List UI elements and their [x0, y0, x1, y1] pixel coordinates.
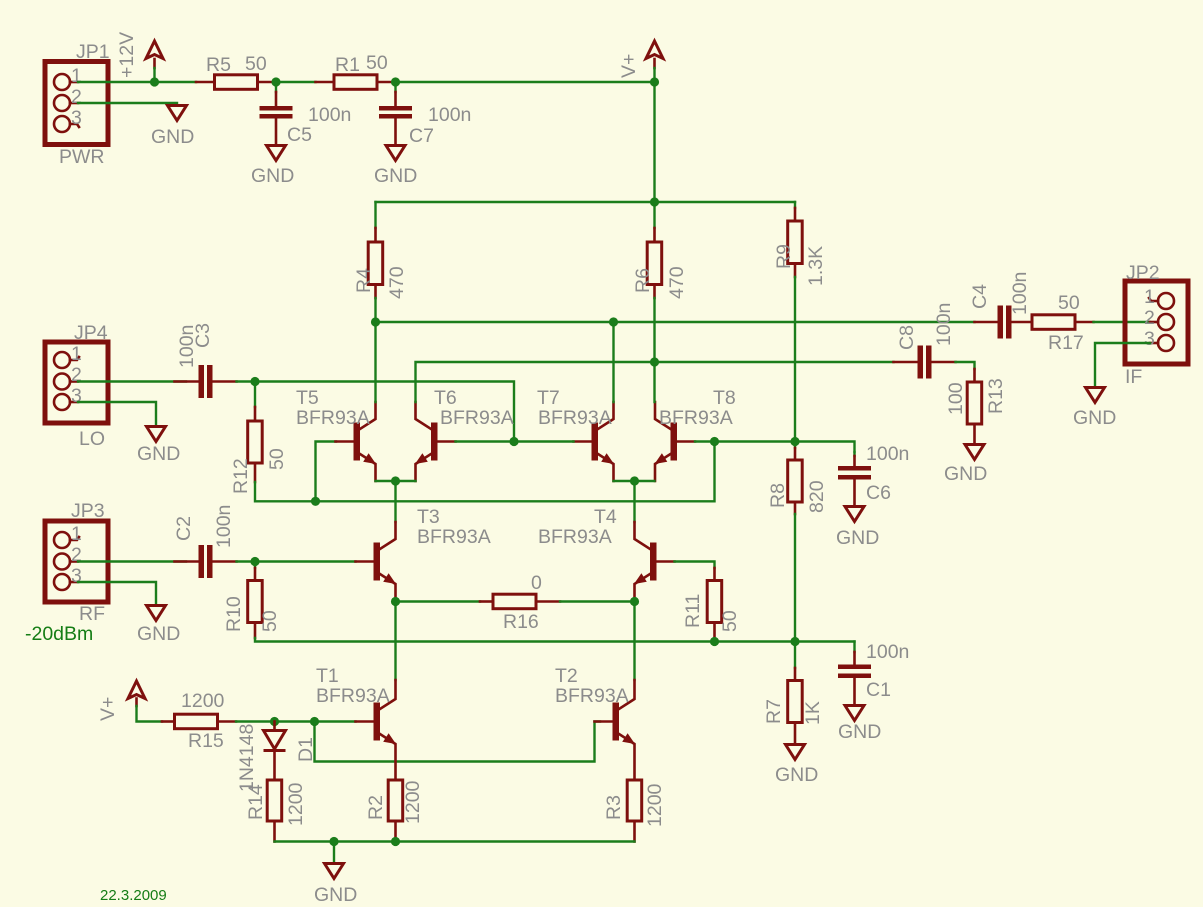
svg-text:3: 3: [1144, 328, 1155, 350]
ground GND (R13): [944, 445, 987, 486]
svg-text:D1: D1: [295, 737, 317, 762]
wire T8 base to bias node: [695, 442, 855, 453]
svg-text:GND: GND: [251, 165, 294, 187]
svg-text:GND: GND: [1073, 407, 1116, 429]
svg-text:GND: GND: [314, 884, 357, 906]
junction R9/R8 bias node: [790, 437, 799, 446]
wire R17 to JP2 pin2: [1094, 321, 1151, 323]
svg-text:820: 820: [806, 480, 828, 513]
svg-text:1: 1: [1144, 286, 1155, 308]
svg-text:R17: R17: [1048, 332, 1084, 354]
resistor R10 50: [223, 568, 281, 638]
JP4 pin 1: [54, 343, 82, 368]
svg-text:C1: C1: [866, 679, 891, 701]
capacitor C6 100n: [838, 443, 909, 505]
svg-text:1: 1: [71, 523, 82, 545]
svg-text:C6: C6: [866, 482, 891, 504]
svg-text:C4: C4: [969, 284, 991, 309]
diode D1 1N4148: [236, 722, 317, 793]
ground GND (C1): [838, 706, 881, 744]
wire JP1 pin2 to GND: [78, 102, 177, 104]
svg-text:50: 50: [259, 610, 281, 632]
svg-text:100n: 100n: [308, 104, 351, 126]
junction R11 bottom on tail rail: [710, 637, 719, 646]
svg-text:R7: R7: [763, 699, 785, 724]
svg-text:R4: R4: [353, 268, 375, 293]
supply V+ symbol (left): [146, 41, 163, 68]
ground GND (bottom): [314, 864, 357, 907]
wire T5 collector riser: [374, 322, 376, 402]
svg-text:100n: 100n: [866, 641, 909, 663]
svg-text:+12V: +12V: [116, 32, 138, 78]
svg-text:3: 3: [71, 385, 82, 407]
svg-text:T8: T8: [713, 387, 736, 409]
capacitor C1 100n: [838, 641, 909, 704]
wire GND stub: [333, 842, 335, 863]
resistor R3 1200: [603, 780, 666, 842]
ground GND (JP3): [137, 606, 180, 646]
wire V+ horizontal rail y202: [376, 201, 796, 203]
svg-text:R14: R14: [245, 784, 267, 820]
ground GND (JP2): [1073, 388, 1116, 430]
svg-text:LO: LO: [79, 428, 105, 450]
svg-text:T3: T3: [417, 506, 440, 528]
junction R5/C5: [271, 77, 280, 86]
svg-text:R2: R2: [365, 795, 387, 820]
svg-text:BFR93A: BFR93A: [417, 526, 491, 548]
supply V+ symbol (top middle): [618, 41, 663, 78]
ground GND (C6): [836, 507, 879, 550]
resistor R16 0: [480, 572, 560, 633]
wire R10 top drop: [254, 562, 256, 569]
svg-text:T5: T5: [296, 387, 319, 409]
JP2 pin 2: [1144, 307, 1174, 330]
junction R1/C7: [391, 77, 400, 86]
svg-text:50: 50: [245, 53, 267, 75]
svg-text:JP3: JP3: [71, 500, 105, 522]
capacitor C3 100n: [175, 323, 237, 398]
junction V+ node: [650, 77, 659, 86]
JP3 pin 1: [54, 523, 82, 548]
svg-text:R15: R15: [188, 730, 224, 752]
svg-text:GND: GND: [944, 463, 987, 485]
transistor T2 BFR93A: [595, 680, 636, 780]
junction +12V node: [150, 77, 159, 86]
ground GND (JP4): [137, 427, 180, 466]
svg-text:BFR93A: BFR93A: [296, 407, 370, 429]
JP4 pin 3: [54, 385, 82, 410]
junction D1 anode: [270, 717, 279, 726]
svg-text:0: 0: [531, 572, 542, 594]
JP1 pin 2: [54, 86, 82, 111]
svg-text:2: 2: [71, 86, 82, 108]
svg-text:R10: R10: [223, 596, 245, 632]
svg-text:470: 470: [386, 266, 408, 299]
wire C2 to RF node: [237, 560, 256, 562]
JP4 pin 2: [54, 364, 82, 390]
wire T6 base to T7 base: [456, 440, 574, 442]
svg-text:BFR93A: BFR93A: [316, 685, 390, 707]
wire RF node to T3 base: [255, 560, 356, 562]
svg-text:T2: T2: [555, 665, 578, 687]
resistor R5 50: [196, 53, 276, 89]
junction R8 tail on rail y641: [790, 637, 799, 646]
wire T6 collector riser and output rail B y362: [416, 362, 894, 402]
junction R2 bottom: [391, 837, 400, 846]
resistor R14 1200: [245, 780, 307, 842]
transistor T3 BFR93A: [356, 522, 397, 602]
transistor T1 BFR93A: [356, 680, 397, 780]
connector JP4: [45, 322, 108, 450]
wire R15 to T1 base: [236, 720, 356, 722]
wire R4 bottom: [374, 298, 376, 322]
svg-text:R12: R12: [230, 458, 252, 494]
junction LO node: [250, 377, 259, 386]
wire JP1 pin1 to +12V node: [78, 81, 196, 83]
transistor T6 BFR93A: [415, 402, 456, 481]
transistor T5 BFR93A: [336, 402, 377, 481]
junction T5 base tap: [311, 497, 320, 506]
wire JP3 pin2 to C2: [78, 560, 186, 562]
JP3 pin 3: [54, 565, 82, 590]
capacitor C4 100n: [969, 272, 1032, 339]
capacitor C7 100n: [379, 82, 471, 147]
JP1 pin 3: [54, 107, 82, 132]
svg-text:R9: R9: [773, 244, 795, 269]
JP2 pin 1: [1144, 286, 1174, 309]
svg-text:BFR93A: BFR93A: [659, 407, 733, 429]
wire R4 top drop: [374, 202, 376, 228]
svg-text:1: 1: [71, 65, 82, 87]
resistor R1 50: [316, 52, 396, 89]
resistor R17 50: [1032, 292, 1094, 354]
wire JP3 pin3 to GND: [78, 582, 156, 604]
svg-text:100n: 100n: [933, 303, 955, 346]
svg-text:T7: T7: [537, 387, 560, 409]
ground GND (JP1): [151, 106, 194, 149]
resistor R7 1K: [763, 642, 824, 744]
svg-text:IF: IF: [1125, 366, 1142, 388]
junction T5/T6 emitters: [391, 476, 400, 485]
resistor R8 820: [767, 442, 828, 515]
svg-text:RF: RF: [79, 603, 105, 625]
JP3 pin 2: [54, 544, 82, 570]
svg-text:50: 50: [266, 448, 288, 470]
JP2 pin 3: [1144, 328, 1174, 351]
junction R6/T8 collector: [650, 357, 659, 366]
wire C8 to R13 corner: [956, 362, 975, 369]
junction GND stub: [329, 837, 338, 846]
wire C1 drop from rail: [853, 642, 855, 653]
svg-text:GND: GND: [775, 764, 818, 786]
svg-text:R3: R3: [603, 795, 625, 820]
wire R16 left: [396, 600, 481, 602]
wire R6 top drop: [653, 202, 655, 228]
svg-text:T1: T1: [316, 665, 339, 687]
svg-text:T4: T4: [594, 506, 617, 528]
svg-text:V+: V+: [618, 54, 640, 78]
wire R9 bottom to LO bias node: [794, 277, 796, 442]
connector JP1: [45, 41, 110, 168]
svg-text:GND: GND: [137, 623, 180, 645]
wire emitters down to T3 collector: [394, 481, 396, 522]
resistor R4 470: [353, 228, 408, 299]
wire T2 base detour: [315, 722, 601, 762]
resistor R13 100: [945, 369, 1007, 443]
svg-text:GND: GND: [838, 721, 881, 743]
connector JP2: [1125, 262, 1188, 388]
ground GND (C7): [374, 146, 417, 188]
transistor T7 BFR93A: [574, 402, 615, 481]
resistor R2 1200: [365, 780, 424, 842]
wire T7 collector riser: [612, 322, 614, 402]
svg-text:JP2: JP2: [1126, 262, 1160, 284]
junction T4 emitter / R16 right: [630, 597, 639, 606]
wire V+ stem: [153, 68, 155, 82]
supply V+ symbol (bottom): [97, 681, 145, 721]
ground GND (C5): [251, 146, 294, 188]
wire T8 collector riser: [653, 362, 655, 402]
wire C3 to LO node: [237, 380, 256, 382]
wire T4 base to R11: [675, 562, 715, 569]
wire JP4 pin2 to C3: [78, 380, 186, 382]
wire R12 top drop: [254, 382, 256, 408]
junction T3 emitter / R16 left: [391, 597, 400, 606]
wire R5 to R1: [276, 81, 316, 83]
JP1 pin 1: [54, 65, 82, 90]
svg-text:V+: V+: [97, 697, 119, 721]
junction T8 base/R12 rail riser: [710, 437, 719, 446]
svg-text:50: 50: [719, 610, 741, 632]
svg-text:C2: C2: [173, 516, 195, 541]
wire V+ stem to rail: [653, 68, 655, 82]
svg-text:100n: 100n: [866, 443, 909, 465]
svg-text:GND: GND: [137, 443, 180, 465]
wire T4 emitter down to T2 collector: [633, 602, 635, 681]
svg-text:-20dBm: -20dBm: [25, 623, 93, 645]
wire T5/T6 emitter tie: [376, 480, 416, 482]
transistor T4 BFR93A: [634, 522, 675, 602]
svg-text:GND: GND: [836, 527, 879, 549]
wire LO rail to crossover corner: [255, 382, 514, 442]
svg-text:R11: R11: [682, 594, 704, 628]
svg-text:1.3K: 1.3K: [805, 246, 827, 286]
svg-text:R13: R13: [985, 378, 1007, 414]
junction V+ distribution: [650, 197, 659, 206]
junction T2 base tap: [310, 717, 319, 726]
wire R16 right: [560, 600, 635, 602]
svg-text:R8: R8: [767, 483, 789, 508]
svg-text:22.3.2009: 22.3.2009: [100, 887, 167, 904]
svg-text:1200: 1200: [285, 782, 307, 826]
junction T7 collector tap: [609, 317, 618, 326]
svg-text:1200: 1200: [181, 690, 225, 712]
wire R8 bottom to tail node: [794, 514, 796, 642]
svg-text:50: 50: [366, 52, 388, 74]
svg-text:R5: R5: [206, 54, 231, 76]
svg-text:100n: 100n: [428, 104, 471, 126]
junction T7/T8 emitters: [630, 476, 639, 485]
resistor R15 1200: [162, 690, 236, 752]
wire R9 top drop: [794, 202, 796, 208]
junction RF node: [250, 557, 259, 566]
junction T6/T7 base node: [509, 437, 518, 446]
svg-text:C5: C5: [287, 124, 312, 146]
capacitor C5 100n: [260, 82, 352, 146]
capacitor C2 100n: [173, 505, 237, 578]
junction R4/T5 collector: [371, 317, 380, 326]
transistor T8 BFR93A: [655, 402, 696, 481]
svg-text:BFR93A: BFR93A: [538, 526, 612, 548]
svg-text:2: 2: [1144, 307, 1155, 329]
svg-text:PWR: PWR: [59, 146, 105, 168]
svg-text:50: 50: [1058, 292, 1080, 314]
svg-text:100: 100: [945, 382, 967, 415]
svg-text:100n: 100n: [1009, 272, 1031, 315]
wire T3 emitter down to T1 collector: [394, 602, 396, 681]
capacitor C8 100n: [894, 303, 956, 379]
svg-text:R6: R6: [632, 268, 654, 293]
svg-text:BFR93A: BFR93A: [440, 407, 514, 429]
svg-text:1200: 1200: [644, 783, 666, 827]
wire output rail A y322: [376, 321, 975, 323]
svg-text:3: 3: [71, 565, 82, 587]
svg-text:GND: GND: [151, 126, 194, 148]
svg-text:1200: 1200: [402, 780, 424, 824]
wire T7/T8 emitter tie: [614, 480, 655, 482]
svg-text:R1: R1: [335, 54, 360, 76]
svg-text:R16: R16: [503, 611, 539, 633]
wire R6 bottom: [653, 298, 655, 362]
ground GND (R7): [775, 745, 818, 787]
wire R12 bottom to T5 base rail: [255, 442, 715, 502]
wire V+ to R15: [137, 706, 163, 722]
svg-text:BFR93A: BFR93A: [555, 685, 629, 707]
svg-text:C3: C3: [192, 323, 214, 348]
svg-text:C7: C7: [409, 125, 434, 147]
wire JP4 pin3 to GND: [78, 402, 156, 425]
resistor R6 470: [632, 228, 688, 299]
wire emitter ground rail y841: [275, 840, 635, 842]
svg-text:1: 1: [71, 343, 82, 365]
svg-text:470: 470: [666, 266, 688, 299]
wire JP2 pin3 to GND: [1095, 343, 1150, 386]
svg-text:JP1: JP1: [76, 41, 110, 63]
connector JP3: [45, 500, 108, 625]
wire V+ column down: [653, 82, 655, 202]
svg-text:JP4: JP4: [74, 322, 108, 344]
svg-text:C8: C8: [896, 325, 918, 350]
svg-text:1N4148: 1N4148: [236, 724, 258, 792]
svg-text:T6: T6: [434, 387, 457, 409]
wire R1 to V+ column: [396, 81, 655, 83]
wire T5 base riser: [316, 442, 337, 502]
svg-text:GND: GND: [374, 165, 417, 187]
svg-text:BFR93A: BFR93A: [538, 407, 612, 429]
svg-text:3: 3: [71, 107, 82, 129]
wire emitters down to T4 collector: [633, 481, 635, 522]
svg-text:100n: 100n: [213, 505, 235, 548]
resistor R11 50: [682, 568, 741, 638]
resistor R9 1.3K: [773, 208, 827, 286]
resistor R12 50: [230, 407, 288, 494]
svg-text:1K: 1K: [802, 701, 824, 725]
wire R10 bottom corner to tail rail y641: [255, 638, 855, 642]
